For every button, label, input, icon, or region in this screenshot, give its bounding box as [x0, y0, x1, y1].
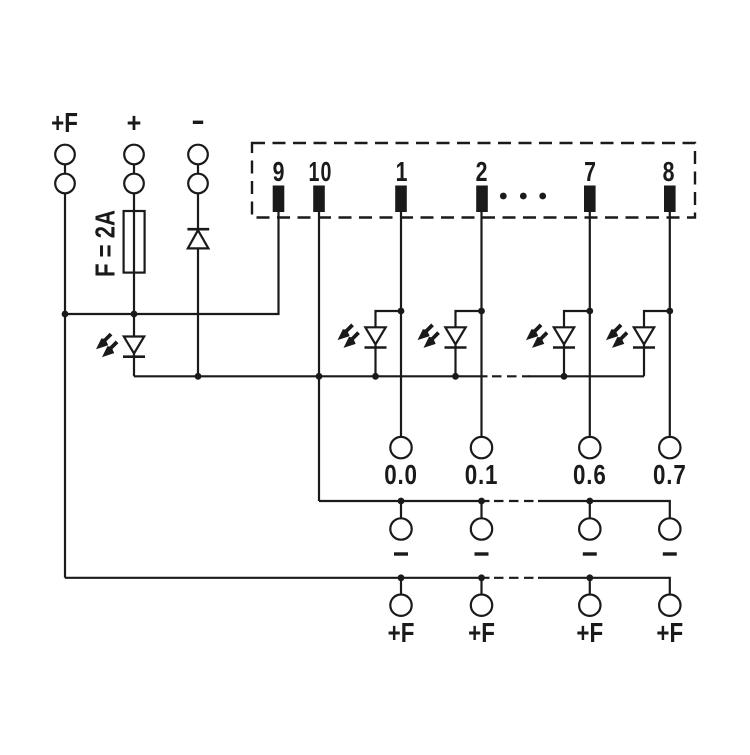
svg-text:0.6: 0.6 [573, 460, 607, 491]
pin 2 contact [476, 186, 488, 213]
wire LED to 0V bus [133, 354, 135, 377]
label − (0.7) [663, 552, 677, 555]
wire LED to 0V bus [454, 344, 456, 376]
wire pin 9 to +24V bus [65, 212, 279, 314]
status LED pin 8 [606, 324, 655, 348]
ellipsis dots between pin 2 and pin 7 [500, 193, 546, 200]
LED branch wire pin 8 [644, 311, 670, 327]
wire + terminal through fuse to LED [133, 193, 135, 336]
svg-text:0.7: 0.7 [653, 460, 687, 491]
junction LED / 0V bus [452, 373, 459, 380]
svg-text:+F: +F [468, 618, 495, 649]
0V bus solid right part [529, 375, 645, 377]
terminal circle − (0.7) [659, 518, 680, 539]
stub +F rail to +F terminal [400, 578, 402, 595]
junction − rail column 0.0 [398, 498, 405, 505]
terminal circle +F (0.7) [659, 595, 680, 616]
junction LED branch pin 7 [586, 308, 593, 315]
junction pin10 line / 0V bus [316, 373, 323, 380]
status LED pin 7 [526, 324, 575, 348]
junction +F rail column 0.1 [478, 574, 485, 581]
terminal circle 0.1 [471, 437, 492, 458]
junction +F rail column 0.0 [398, 574, 405, 581]
junction − line / 0V bus [195, 373, 202, 380]
label − (0.1) [475, 552, 489, 555]
junction +F rail column 0.6 [586, 574, 593, 581]
svg-text:+: + [127, 107, 142, 139]
terminal circle +F (0.6) [579, 595, 600, 616]
wire +F terminal down to +F bus corner [64, 193, 66, 578]
terminal − circles [188, 145, 208, 165]
wire between − circles [197, 164, 199, 173]
junction + / +24V bus [131, 311, 138, 318]
label − (0V terminal) [193, 121, 203, 124]
junction LED branch pin 2 [478, 308, 485, 315]
diode (reverse polarity protection) [187, 229, 209, 248]
svg-text:+F: +F [576, 618, 603, 649]
wire between + circles [133, 164, 135, 173]
svg-text:7: 7 [584, 156, 596, 188]
terminal circle +F (0.0) [390, 595, 411, 616]
svg-text:0.0: 0.0 [384, 460, 418, 491]
junction LED branch pin 8 [666, 308, 673, 315]
junction LED / 0V bus [372, 373, 379, 380]
junction − rail column 0.6 [586, 498, 593, 505]
terminal circle 0.7 [659, 437, 680, 458]
+F rail solid right part with end drop [538, 578, 670, 595]
terminal circle 0.6 [579, 437, 600, 458]
stub − rail to − terminal [400, 501, 402, 518]
terminal circle − (0.0) [390, 518, 411, 539]
junction +F / +24V bus [62, 311, 69, 318]
LED branch wire pin 7 [564, 311, 590, 327]
fuse F = 2A [124, 211, 145, 273]
stub +F rail to +F terminal [589, 578, 591, 595]
svg-text:10: 10 [309, 157, 333, 188]
wire diode to 0V bus (crosses +24V bus without junction) [197, 248, 199, 376]
svg-text:+F: +F [656, 618, 683, 649]
status LED pin 2 [418, 324, 467, 348]
terminal circle − (0.6) [579, 518, 600, 539]
stub − rail to − terminal [589, 501, 591, 518]
− rail solid right part with end drop [538, 501, 670, 518]
terminal circle 0.0 [390, 437, 411, 458]
LED branch wire pin 1 [376, 311, 402, 327]
wire − terminal to diode [197, 193, 199, 229]
− rail dashed continuation [494, 500, 534, 502]
wire between +F circles [64, 164, 66, 173]
wire LED to 0V bus [374, 344, 376, 376]
svg-text:1: 1 [396, 156, 408, 188]
terminal circle − (0.1) [471, 518, 492, 539]
wire pin 8 to terminal 0.7 [669, 212, 671, 437]
stub +F rail to +F terminal [480, 578, 482, 595]
svg-text:0.1: 0.1 [465, 460, 499, 491]
pin 7 contact [584, 186, 596, 213]
svg-text:+F: +F [51, 108, 78, 139]
pin 8 contact [664, 186, 676, 213]
wire pin 1 to terminal 0.0 [400, 212, 402, 437]
terminal +F circles [55, 145, 75, 165]
status LED pin 1 [338, 324, 387, 348]
pin 9 contact [273, 186, 285, 213]
+F rail solid left part [65, 577, 490, 579]
svg-text:2: 2 [476, 156, 488, 188]
0V bus (LED cathode rail) solid left part [134, 375, 488, 377]
0V bus dashed continuation [492, 375, 530, 377]
wire LED to 0V bus [563, 344, 565, 376]
wire pin 7 to terminal 0.6 [589, 212, 591, 437]
status LED supply column [96, 333, 145, 357]
terminal + circles [124, 145, 144, 165]
label − (0.6) [583, 552, 597, 555]
wire pin 10 down to − rail corner [318, 212, 320, 501]
wire pin 2 to terminal 0.1 [480, 212, 482, 437]
pin 10 contact [313, 186, 325, 213]
svg-text:+F: +F [388, 618, 415, 649]
+F rail dashed continuation [494, 577, 534, 579]
− rail solid left part [319, 500, 490, 502]
svg-text:9: 9 [273, 156, 285, 188]
label − (0.0) [394, 552, 408, 555]
junction − rail column 0.1 [478, 498, 485, 505]
junction LED branch pin 1 [398, 308, 405, 315]
pin 1 contact [395, 186, 407, 213]
svg-text:F = 2A: F = 2A [90, 210, 121, 277]
wire LED to 0V bus [643, 344, 645, 376]
svg-text:8: 8 [663, 156, 675, 188]
junction LED / 0V bus [561, 373, 568, 380]
terminal circle +F (0.1) [471, 595, 492, 616]
stub − rail to − terminal [480, 501, 482, 518]
LED branch wire pin 2 [456, 311, 482, 327]
connector dashed outline box [252, 143, 695, 218]
